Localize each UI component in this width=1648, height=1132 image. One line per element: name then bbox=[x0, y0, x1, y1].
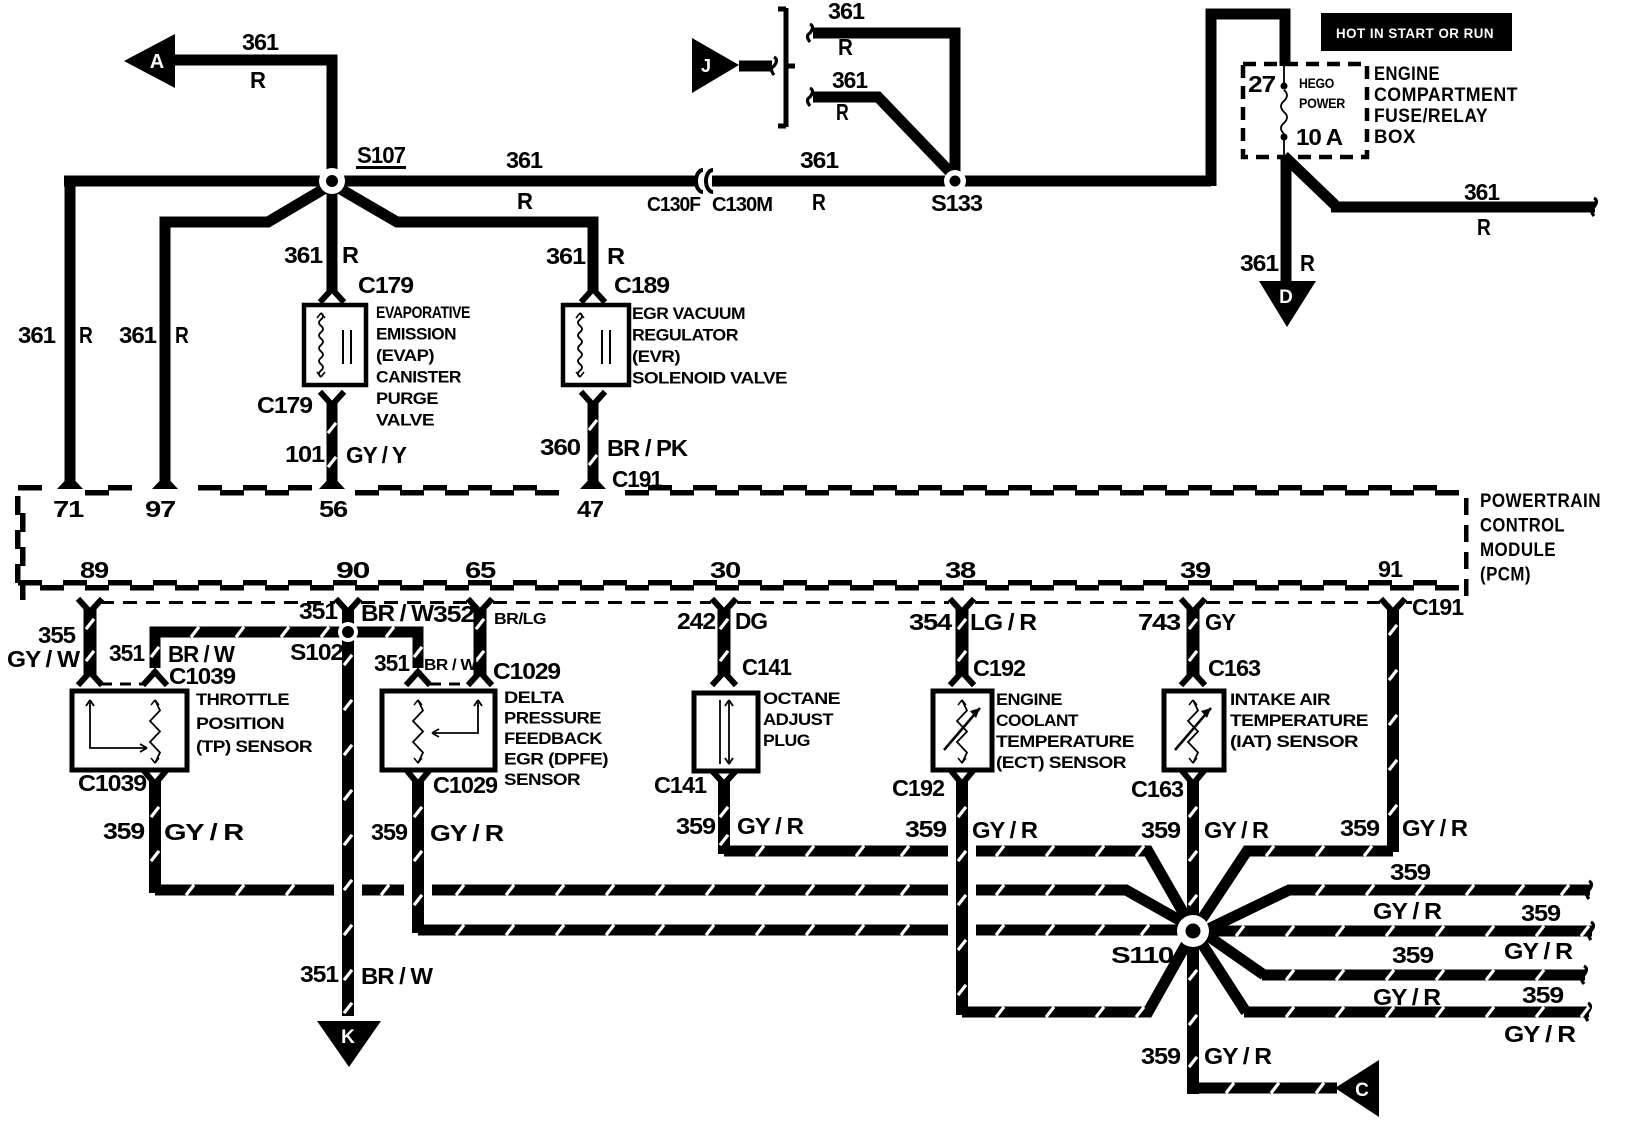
value label 361 (left wire 97) bbox=[119, 322, 157, 348]
svg-text:C1029: C1029 bbox=[493, 658, 560, 684]
wire 361 R (S107 to EGR valve) bbox=[337, 187, 593, 291]
value label 359 (TP) bbox=[103, 818, 144, 844]
svg-text:56: 56 bbox=[319, 496, 347, 522]
connector pin fork at PCM pin 38 bbox=[952, 601, 972, 612]
value label BR / W (DPFE) bbox=[424, 657, 477, 674]
svg-text:C: C bbox=[1355, 1080, 1369, 1101]
svg-text:30: 30 bbox=[710, 557, 740, 583]
value label LG / R bbox=[970, 609, 1037, 635]
svg-text:POWER: POWER bbox=[1299, 95, 1345, 111]
svg-text:R: R bbox=[838, 34, 853, 60]
connector label C191 (harness) bbox=[1412, 594, 1464, 620]
svg-text:ENGINE: ENGINE bbox=[1374, 64, 1440, 85]
svg-text:C163: C163 bbox=[1208, 655, 1260, 681]
wire 359 GY/R (IAT sensor to S110) bbox=[1189, 780, 1197, 931]
connector label C1029 (bottom) bbox=[433, 772, 497, 798]
svg-text:BR / W: BR / W bbox=[361, 600, 434, 626]
connector lower fork bbox=[80, 672, 100, 683]
connector label C192 (bottom) bbox=[892, 775, 944, 801]
svg-text:91: 91 bbox=[1378, 556, 1403, 582]
svg-text:R: R bbox=[836, 99, 849, 125]
PCM box right dashed border bbox=[1464, 498, 1469, 596]
connector label C179 (bottom) bbox=[257, 392, 312, 418]
svg-text:R: R bbox=[812, 189, 826, 215]
pin number 65 bbox=[465, 557, 497, 583]
value label GY / R (TP) bbox=[164, 819, 245, 845]
svg-text:D: D bbox=[1279, 287, 1293, 308]
label POWERTRAIN bbox=[1480, 491, 1601, 512]
throttle position sensor C1039 bbox=[72, 691, 187, 770]
wire 359 GY/R (S110 to right row 1) bbox=[1198, 881, 1592, 934]
svg-text:S102: S102 bbox=[290, 639, 343, 665]
connector pin fork at PCM pin 30 bbox=[714, 601, 734, 612]
label ENGINE (fuse box name) bbox=[1374, 64, 1440, 85]
svg-text:THROTTLE: THROTTLE bbox=[196, 690, 289, 709]
svg-text:C141: C141 bbox=[654, 772, 707, 798]
value label 354 bbox=[909, 609, 952, 635]
connector C179 (top fork) bbox=[322, 289, 342, 300]
svg-text:R: R bbox=[1477, 214, 1491, 240]
svg-text:71: 71 bbox=[53, 496, 85, 522]
value label R (bus right) bbox=[812, 189, 826, 215]
PCM pin 56 entry bbox=[319, 481, 345, 493]
value label 359 (right row 2) bbox=[1521, 900, 1560, 926]
harness wire (connector run) bbox=[476, 608, 484, 676]
value label 361 (bus right) bbox=[800, 147, 839, 173]
value label 360 bbox=[540, 434, 580, 460]
svg-text:GY / W: GY / W bbox=[7, 646, 80, 672]
svg-text:GY / R: GY / R bbox=[1373, 984, 1441, 1010]
svg-text:R: R bbox=[250, 67, 266, 93]
svg-text:359: 359 bbox=[1521, 900, 1560, 926]
svg-text:359: 359 bbox=[1141, 1043, 1180, 1069]
svg-text:65: 65 bbox=[465, 557, 497, 583]
svg-text:361: 361 bbox=[119, 322, 157, 348]
value label 351 (TP) bbox=[109, 640, 145, 666]
svg-text:BR / PK: BR / PK bbox=[607, 435, 688, 461]
value label BR / PK bbox=[607, 435, 688, 461]
value label 359 (ECT) bbox=[905, 816, 946, 842]
connector label C130F bbox=[647, 194, 701, 216]
pin number 90 bbox=[336, 557, 369, 583]
value label 361 (EVAP wire) bbox=[284, 242, 323, 268]
svg-text:GY / R: GY / R bbox=[972, 817, 1038, 843]
svg-text:359: 359 bbox=[1141, 817, 1180, 843]
connector C141 (bottom fork) bbox=[714, 773, 734, 784]
value label R (J wire 1) bbox=[838, 34, 853, 60]
svg-text:361: 361 bbox=[1464, 179, 1500, 205]
fuse position label 27 bbox=[1248, 71, 1275, 97]
wire 361 R (fuse to arrow D) bbox=[1281, 158, 1292, 282]
intake air temperature sensor C163 bbox=[1164, 691, 1224, 770]
value label 355 bbox=[38, 622, 76, 648]
svg-text:HEGO: HEGO bbox=[1299, 75, 1334, 91]
connector pin fork at PCM pin 91 bbox=[1383, 601, 1403, 612]
svg-text:R: R bbox=[79, 322, 93, 348]
harness wire (connector run) bbox=[958, 608, 966, 676]
svg-text:BR / W: BR / W bbox=[361, 963, 433, 989]
value label R (A wire) bbox=[250, 67, 266, 93]
value label R (right wire) bbox=[1477, 214, 1491, 240]
svg-text:359: 359 bbox=[371, 819, 407, 845]
svg-text:351: 351 bbox=[299, 598, 338, 624]
svg-text:47: 47 bbox=[577, 496, 603, 522]
value label BR / W (arrow K wire) bbox=[361, 963, 433, 989]
value label 361 (EGR wire) bbox=[546, 243, 586, 269]
svg-text:R: R bbox=[517, 188, 533, 214]
label MODULE bbox=[1480, 540, 1556, 561]
value label GY / W bbox=[7, 646, 80, 672]
svg-text:TEMPERATURE: TEMPERATURE bbox=[996, 732, 1134, 751]
svg-text:LG / R: LG / R bbox=[970, 609, 1037, 635]
connector fork (DPFE left pin) bbox=[408, 672, 428, 683]
value label 359 (DPFE) bbox=[371, 819, 407, 845]
svg-text:361: 361 bbox=[828, 0, 865, 24]
label ADJUST bbox=[763, 710, 834, 729]
svg-text:SOLENOID VALVE: SOLENOID VALVE bbox=[632, 369, 787, 388]
connector label C163 (bottom) bbox=[1131, 776, 1183, 802]
svg-text:EGR VACUUM: EGR VACUUM bbox=[632, 304, 745, 323]
wire 359 GY/R (S110 to right row 3) bbox=[1198, 929, 1587, 984]
splice label S133 bbox=[931, 190, 982, 216]
off-page connector arrow D bbox=[1259, 281, 1316, 327]
svg-text:354: 354 bbox=[909, 609, 952, 635]
svg-text:359: 359 bbox=[1522, 982, 1563, 1008]
label DELTA bbox=[504, 688, 564, 707]
svg-text:PURGE: PURGE bbox=[376, 389, 438, 408]
splice S110 junction bbox=[1177, 915, 1209, 947]
label (EVR) bbox=[632, 347, 680, 366]
connector C189 (bottom fork) bbox=[583, 394, 603, 405]
value label 101 bbox=[285, 441, 325, 467]
svg-text:359: 359 bbox=[1390, 859, 1430, 885]
svg-text:C1029: C1029 bbox=[433, 772, 497, 798]
svg-text:GY: GY bbox=[1205, 609, 1236, 635]
pin number 56 bbox=[319, 496, 347, 522]
svg-text:101: 101 bbox=[285, 441, 325, 467]
svg-text:EVAPORATIVE: EVAPORATIVE bbox=[376, 303, 470, 322]
value label 351 (pin 90) bbox=[299, 598, 338, 624]
svg-text:DELTA: DELTA bbox=[504, 688, 564, 707]
svg-text:R: R bbox=[607, 243, 625, 269]
sensor-side dashed interface (C1029) bbox=[430, 683, 470, 686]
label THROTTLE bbox=[196, 690, 289, 709]
PCM pin 97 entry bbox=[152, 481, 178, 493]
label SENSOR bbox=[504, 770, 580, 789]
label OCTANE bbox=[763, 689, 840, 708]
svg-text:GY / R: GY / R bbox=[1204, 817, 1269, 843]
svg-text:361: 361 bbox=[832, 67, 868, 93]
svg-text:R: R bbox=[342, 242, 359, 268]
splice label S110 bbox=[1111, 942, 1173, 968]
connector lower fork bbox=[1183, 672, 1203, 683]
svg-text:351: 351 bbox=[300, 961, 339, 987]
svg-text:A: A bbox=[150, 51, 164, 73]
wire 101 GY/Y (EVAP to PCM pin 56) bbox=[328, 403, 336, 482]
connector C163 (bottom fork) bbox=[1183, 772, 1203, 784]
svg-text:ADJUST: ADJUST bbox=[763, 710, 834, 729]
svg-text:(EVR): (EVR) bbox=[632, 347, 680, 366]
svg-text:INTAKE AIR: INTAKE AIR bbox=[1230, 690, 1330, 709]
connector label C189 bbox=[614, 272, 669, 298]
value label R (bus) bbox=[517, 188, 533, 214]
wire 360 BR/PK (EGR to PCM pin 47) bbox=[589, 403, 597, 482]
label CANISTER bbox=[376, 368, 461, 387]
svg-text:352: 352 bbox=[433, 601, 474, 627]
label PLUG bbox=[763, 731, 810, 750]
svg-text:743: 743 bbox=[1138, 609, 1180, 635]
connector lower fork bbox=[952, 672, 972, 683]
harness wire (connector run) bbox=[86, 608, 94, 676]
label PRESSURE bbox=[504, 709, 601, 728]
svg-text:GY / R: GY / R bbox=[1402, 815, 1468, 841]
connector label C192 (top) bbox=[973, 655, 1025, 681]
svg-text:351: 351 bbox=[374, 650, 410, 676]
svg-text:R: R bbox=[1300, 250, 1315, 276]
connector C179 (bottom fork) bbox=[322, 394, 342, 405]
svg-text:359: 359 bbox=[905, 816, 946, 842]
value label GY / R (octane) bbox=[737, 813, 804, 839]
engine coolant temperature sensor C192 bbox=[933, 691, 992, 770]
svg-text:C130F: C130F bbox=[647, 194, 701, 216]
wire 361 R (bus left to PCM pin 71) bbox=[64, 181, 70, 482]
off-page connector arrow A bbox=[124, 34, 175, 88]
svg-text:MODULE: MODULE bbox=[1480, 540, 1556, 561]
engine compartment fuse/relay box (dashed) bbox=[1243, 64, 1367, 157]
svg-text:GY / R: GY / R bbox=[1504, 1021, 1577, 1047]
svg-text:89: 89 bbox=[80, 557, 108, 583]
label ENGINE (ECT) bbox=[996, 690, 1062, 709]
label POSITION bbox=[196, 714, 284, 733]
pin number 91 bbox=[1378, 556, 1403, 582]
value label R (EGR wire) bbox=[607, 243, 625, 269]
PCM box left dashed border bbox=[15, 496, 26, 600]
value label 359 (pin 91) bbox=[1340, 815, 1379, 841]
label INTAKE AIR bbox=[1230, 690, 1330, 709]
wire 359 GY/R (octane plug) bbox=[720, 780, 1188, 921]
svg-text:REGULATOR: REGULATOR bbox=[632, 326, 738, 345]
connector fork (TP right pin) bbox=[145, 672, 165, 683]
svg-text:C191: C191 bbox=[1412, 594, 1464, 620]
svg-text:GY / R: GY / R bbox=[737, 813, 804, 839]
wire 359 GY/R (TP sensor) bbox=[151, 780, 1188, 925]
harness wire (connector run) bbox=[720, 608, 728, 676]
value label GY / R (right row 1) bbox=[1373, 898, 1442, 924]
svg-text:DG: DG bbox=[735, 608, 767, 634]
value label GY / R (ECT) bbox=[972, 817, 1038, 843]
wire 359 GY/R (S110 to right row 4) bbox=[1197, 936, 1591, 1021]
value label 361 (left wire 71) bbox=[18, 322, 56, 348]
wire 359 GY/R (DPFE sensor) bbox=[414, 780, 1178, 935]
svg-text:VALVE: VALVE bbox=[376, 411, 434, 430]
pin number 39 bbox=[1180, 557, 1210, 583]
svg-text:FUSE/RELAY: FUSE/RELAY bbox=[1374, 106, 1488, 127]
connector label C1029 (top) bbox=[493, 658, 560, 684]
wire 361 R (J bracket top to S133) bbox=[808, 24, 956, 176]
value label GY / R (DPFE) bbox=[430, 820, 505, 846]
svg-text:EGR (DPFE): EGR (DPFE) bbox=[504, 750, 608, 769]
fuse name label POWER bbox=[1299, 95, 1345, 111]
connector lower fork bbox=[470, 672, 490, 683]
connector pin fork at PCM pin 65 bbox=[470, 601, 490, 612]
svg-text:CANISTER: CANISTER bbox=[376, 368, 461, 387]
connector label C179 (top) bbox=[358, 272, 413, 298]
wire stub from arrow J bbox=[739, 57, 777, 75]
svg-text:38: 38 bbox=[945, 557, 977, 583]
label REGULATOR bbox=[632, 326, 738, 345]
svg-text:361: 361 bbox=[1240, 250, 1279, 276]
connector C1039 (bottom fork) bbox=[145, 772, 165, 784]
svg-text:GY / Y: GY / Y bbox=[346, 442, 407, 468]
value label 242 bbox=[677, 608, 715, 634]
svg-text:HOT IN START OR RUN: HOT IN START OR RUN bbox=[1336, 26, 1494, 41]
svg-text:EMISSION: EMISSION bbox=[376, 325, 456, 344]
wire 361 R (C130M to S133 to fuse box) bbox=[712, 14, 1285, 186]
value label 361 (A wire) bbox=[242, 29, 279, 55]
svg-text:C130M: C130M bbox=[712, 194, 772, 216]
value label 359 (right row 1) bbox=[1390, 859, 1430, 885]
svg-text:27: 27 bbox=[1248, 71, 1275, 97]
PCM box top dashed border bbox=[18, 485, 1459, 496]
inline connector break C130F/C130M bbox=[696, 170, 713, 192]
value label 359 (right row 3) bbox=[1392, 942, 1433, 968]
label COMPARTMENT bbox=[1374, 85, 1518, 106]
value label 359 (IAT) bbox=[1141, 817, 1180, 843]
svg-text:K: K bbox=[341, 1027, 355, 1048]
svg-text:361: 361 bbox=[284, 242, 323, 268]
wire 361 R (S107 to PCM pin 97) bbox=[165, 187, 327, 482]
PCM pin 47 entry bbox=[580, 481, 606, 493]
label EVAPORATIVE bbox=[376, 303, 470, 322]
wire 359 GY/R (PCM pin 91 to S110) bbox=[1198, 608, 1397, 925]
label COOLANT bbox=[996, 711, 1079, 730]
svg-text:C163: C163 bbox=[1131, 776, 1183, 802]
svg-text:S107: S107 bbox=[357, 142, 405, 168]
value label BR/LG bbox=[494, 611, 546, 628]
sensor-side dashed interface (C1039) bbox=[101, 683, 145, 686]
label EMISSION bbox=[376, 325, 456, 344]
value label 351 (arrow K wire) bbox=[300, 961, 339, 987]
PCM box bottom dashed border bbox=[18, 580, 1459, 591]
svg-text:BR/LG: BR/LG bbox=[494, 611, 546, 628]
value label 352 bbox=[433, 601, 474, 627]
value label GY / Y bbox=[346, 442, 407, 468]
wire 351 BR/W (S102 to DPFE) bbox=[354, 627, 422, 668]
wire 361 R (arrow A to S107) bbox=[170, 60, 332, 181]
bracket (wire gather) bbox=[778, 8, 795, 127]
svg-text:360: 360 bbox=[540, 434, 580, 460]
wire 351 BR/W (PCM pin 90 through S102 to arrow K) bbox=[344, 608, 352, 1016]
wire 361 R (J bracket lower to S133) bbox=[808, 88, 951, 172]
value label 743 bbox=[1138, 609, 1180, 635]
svg-text:GY / R: GY / R bbox=[430, 820, 505, 846]
svg-text:CONTROL: CONTROL bbox=[1480, 516, 1565, 537]
pin number 47 bbox=[577, 496, 603, 522]
label TEMPERATURE (ECT) bbox=[996, 732, 1134, 751]
value label R (left wire 97) bbox=[175, 322, 189, 348]
off-page connector arrow J bbox=[692, 38, 739, 93]
value label 361 (bus) bbox=[506, 147, 543, 173]
svg-text:C179: C179 bbox=[257, 392, 312, 418]
wire 361 R (S107 bus to C130F) bbox=[64, 176, 695, 187]
harness wire (connector run) bbox=[1189, 608, 1197, 676]
value label 351 (DPFE) bbox=[374, 650, 410, 676]
svg-text:COOLANT: COOLANT bbox=[996, 711, 1079, 730]
svg-text:351: 351 bbox=[109, 640, 145, 666]
value label 359 (arrow C wire) bbox=[1141, 1043, 1180, 1069]
svg-text:97: 97 bbox=[145, 496, 175, 522]
svg-text:POWERTRAIN: POWERTRAIN bbox=[1480, 491, 1601, 512]
value label GY / R (right row 4) bbox=[1504, 1021, 1577, 1047]
wire 351 BR/W (S102 to TP sensor) bbox=[151, 627, 348, 668]
svg-text:GY / R: GY / R bbox=[1504, 938, 1573, 964]
label (EVAP) bbox=[376, 346, 434, 365]
label CONTROL bbox=[1480, 516, 1565, 537]
svg-text:S110: S110 bbox=[1111, 942, 1173, 968]
svg-text:BOX: BOX bbox=[1374, 127, 1416, 148]
value label GY / R (pin 91) bbox=[1402, 815, 1468, 841]
svg-text:C1039: C1039 bbox=[169, 663, 235, 689]
fuse name label HEGO bbox=[1299, 75, 1334, 91]
svg-text:GY / R: GY / R bbox=[1373, 898, 1442, 924]
value label GY / R (right row 2) bbox=[1504, 938, 1573, 964]
label VALVE bbox=[376, 411, 434, 430]
svg-text:361: 361 bbox=[242, 29, 279, 55]
label BOX bbox=[1374, 127, 1416, 148]
wire 361 R (fuse branch to right off-page) bbox=[1284, 156, 1597, 216]
svg-text:OCTANE: OCTANE bbox=[763, 689, 840, 708]
svg-text:BR / W: BR / W bbox=[424, 657, 477, 674]
splice S133 junction bbox=[944, 170, 966, 192]
svg-text:POSITION: POSITION bbox=[196, 714, 284, 733]
svg-text:359: 359 bbox=[676, 813, 715, 839]
value label R (J wire 2) bbox=[836, 99, 849, 125]
svg-text:10 A: 10 A bbox=[1296, 124, 1342, 150]
splice label S107 bbox=[356, 142, 406, 169]
value label GY / R (arrow C wire) bbox=[1204, 1043, 1272, 1069]
connector label C163 (top) bbox=[1208, 655, 1260, 681]
svg-text:R: R bbox=[175, 322, 189, 348]
connector pin fork at PCM pin 90 bbox=[338, 601, 358, 612]
svg-text:TEMPERATURE: TEMPERATURE bbox=[1230, 711, 1368, 730]
value label 361 (J wire 1) bbox=[828, 0, 865, 24]
value label R (D wire) bbox=[1300, 250, 1315, 276]
svg-text:S133: S133 bbox=[931, 190, 982, 216]
pin number 89 bbox=[80, 557, 108, 583]
value label 359 (octane) bbox=[676, 813, 715, 839]
svg-text:FEEDBACK: FEEDBACK bbox=[504, 729, 603, 748]
svg-text:GY / R: GY / R bbox=[164, 819, 245, 845]
svg-text:361: 361 bbox=[506, 147, 543, 173]
svg-text:242: 242 bbox=[677, 608, 715, 634]
PCM pin 71 entry bbox=[57, 481, 83, 493]
svg-text:361: 361 bbox=[18, 322, 56, 348]
connector label C141 (top) bbox=[742, 654, 792, 680]
svg-text:C189: C189 bbox=[614, 272, 669, 298]
svg-text:C141: C141 bbox=[742, 654, 792, 680]
connector C191 interface (thin dashed line) bbox=[100, 601, 1412, 604]
value label R (left wire 71) bbox=[79, 322, 93, 348]
octane adjust plug C141 bbox=[694, 693, 758, 771]
EGR vacuum regulator solenoid valve bbox=[563, 305, 629, 385]
label EGR VACUUM bbox=[632, 304, 745, 323]
connector label C1039 (top) bbox=[169, 663, 235, 689]
label (TP) SENSOR bbox=[196, 737, 312, 756]
pin number 38 bbox=[945, 557, 977, 583]
label (PCM) bbox=[1480, 565, 1531, 586]
value label GY (pin 39) bbox=[1205, 609, 1236, 635]
svg-text:361: 361 bbox=[800, 147, 839, 173]
